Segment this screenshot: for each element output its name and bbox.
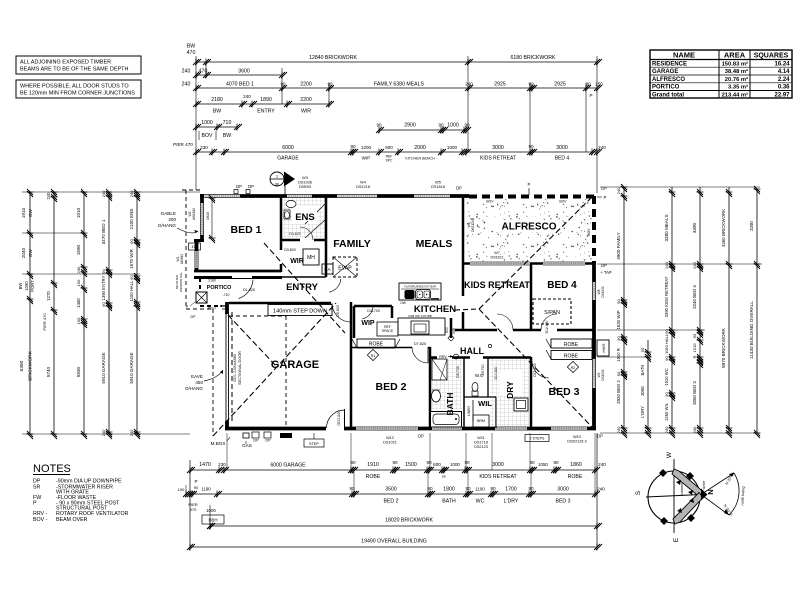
wall: wc/wil divider y=397 xyxy=(464,396,496,398)
portico pier xyxy=(186,292,207,309)
svg-text:1800: 1800 xyxy=(443,487,455,493)
svg-text:GAS: GAS xyxy=(242,443,252,448)
svg-text:1460 WIL: 1460 WIL xyxy=(664,402,669,421)
svg-text:WHERE POSSIBLE, ALL DOOR STUDS: WHERE POSSIBLE, ALL DOOR STUDS TO xyxy=(20,84,129,90)
S/PAN dashed box xyxy=(533,299,571,324)
svg-text:P: P xyxy=(589,93,592,98)
svg-text:1190: 1190 xyxy=(201,487,211,492)
svg-text:600: 600 xyxy=(433,462,441,467)
compass rose xyxy=(635,451,745,542)
svg-text:3390: 3390 xyxy=(692,222,697,233)
svg-text:FLAT/BRUSHED HOT BAR: FLAT/BRUSHED HOT BAR xyxy=(404,285,436,289)
svg-text:90: 90 xyxy=(426,460,432,465)
svg-text:90: 90 xyxy=(692,333,697,338)
WC room xyxy=(472,364,485,396)
wall: alfresco bottom / kids-bed4 top xyxy=(463,262,594,265)
svg-text:DP: DP xyxy=(191,315,197,319)
svg-text:16.24: 16.24 xyxy=(774,61,790,67)
svg-text:5740: 5740 xyxy=(46,366,51,377)
svg-text:2925: 2925 xyxy=(554,82,566,88)
svg-text:240: 240 xyxy=(76,266,81,273)
svg-text:3060 BED 3: 3060 BED 3 xyxy=(692,381,697,405)
kitchen bench island xyxy=(399,283,441,305)
svg-text:BATH: BATH xyxy=(640,365,645,376)
svg-text:R2: R2 xyxy=(571,366,576,370)
svg-text:LINEN: LINEN xyxy=(467,405,471,416)
svg-text:90: 90 xyxy=(490,486,496,491)
svg-text:DS2124B: DS2124B xyxy=(471,218,475,232)
room label ALFRESCO xyxy=(496,220,562,233)
left wall window labels xyxy=(175,208,196,319)
svg-text:1460: 1460 xyxy=(76,298,81,308)
svg-text:2.24: 2.24 xyxy=(778,77,790,83)
svg-text:S: S xyxy=(635,490,642,495)
bottom dimension row B xyxy=(178,479,606,530)
svg-text:90: 90 xyxy=(528,82,534,87)
ens tiled floor + fixtures xyxy=(283,198,325,238)
svg-text:3000: 3000 xyxy=(492,462,504,468)
svg-text:P: P xyxy=(528,182,531,187)
svg-text:W: W xyxy=(666,451,673,458)
svg-text:90: 90 xyxy=(194,485,199,490)
svg-text:KITCHEN: KITCHEN xyxy=(414,304,456,315)
wall: garage top / step down xyxy=(229,302,331,305)
window W2 AW1812 bed1 left xyxy=(201,203,204,235)
svg-text:ENTRY: ENTRY xyxy=(286,282,319,293)
svg-text:90: 90 xyxy=(464,460,470,465)
roof hip: entry diagonal xyxy=(264,243,345,333)
svg-text:1000: 1000 xyxy=(447,145,458,150)
svg-text:ALFRESCO: ALFRESCO xyxy=(652,77,685,83)
svg-text:BEAM OVER: BEAM OVER xyxy=(56,517,88,523)
svg-text:2180: 2180 xyxy=(208,279,216,283)
svg-text:D4L720.: D4L720. xyxy=(367,309,381,313)
svg-text:MH: MH xyxy=(307,255,315,261)
svg-text:90: 90 xyxy=(664,329,669,334)
svg-text:4070 BED 1: 4070 BED 1 xyxy=(226,82,254,88)
top block extension lines xyxy=(196,56,597,193)
right dimension columns xyxy=(597,184,762,438)
svg-text:240: 240 xyxy=(664,261,669,268)
roof ridge: kitchen xyxy=(455,309,479,310)
RRV symbol xyxy=(439,354,458,359)
svg-text:BED 3: BED 3 xyxy=(556,499,571,505)
svg-text:BRM: BRM xyxy=(477,419,485,423)
svg-text:DS1921: DS1921 xyxy=(601,369,605,381)
svg-text:230: 230 xyxy=(218,462,226,467)
svg-text:NAME: NAME xyxy=(673,51,695,60)
wall: ens / wir divider xyxy=(281,239,326,242)
svg-text:ROBE: ROBE xyxy=(564,354,579,360)
svg-text:0.36: 0.36 xyxy=(778,85,790,91)
wall: bed1 bottom xyxy=(194,270,281,273)
svg-text:1620 WIP: 1620 WIP xyxy=(616,310,621,329)
wall: bath/wc divider x=464 xyxy=(463,357,465,428)
svg-text:DP: DP xyxy=(418,434,424,439)
svg-text:DS1921: DS1921 xyxy=(601,286,605,298)
svg-text:90: 90 xyxy=(427,486,433,491)
svg-text:BOV: BOV xyxy=(587,228,591,236)
top dimension row 5: bov bw xyxy=(193,120,242,140)
ens door D4.820 xyxy=(289,227,314,242)
wall: right exterior xyxy=(592,262,596,430)
note box: door studs xyxy=(16,80,141,98)
svg-text:GARAGE: GARAGE xyxy=(271,359,319,371)
svg-text:1000: 1000 xyxy=(206,508,216,513)
svg-text:4900 FAMILY: 4900 FAMILY xyxy=(616,232,621,260)
REF SPACE box xyxy=(377,322,398,336)
svg-text:DSD2115-2: DSD2115-2 xyxy=(567,440,587,444)
svg-text:DP: DP xyxy=(248,184,254,189)
wall: alfresco top dashed xyxy=(469,195,596,199)
HWS box xyxy=(597,340,609,356)
svg-text:1000: 1000 xyxy=(450,462,460,467)
svg-text:R1: R1 xyxy=(371,354,376,358)
svg-text:190: 190 xyxy=(76,279,81,286)
svg-text:90: 90 xyxy=(438,123,444,128)
svg-text:240: 240 xyxy=(182,69,191,75)
right wall annotations xyxy=(597,263,612,439)
garage door travel dashed outline xyxy=(229,315,286,317)
svg-text:GARAGE: GARAGE xyxy=(652,69,678,75)
svg-text:213.44 m²: 213.44 m² xyxy=(722,91,748,98)
svg-text:1700: 1700 xyxy=(505,487,517,493)
svg-text:BOV+: BOV+ xyxy=(208,307,217,311)
roof hip: bed3 diagonal xyxy=(479,309,592,427)
bottom dimension row D: 19490 overall building xyxy=(187,539,602,551)
svg-text:D55/93: D55/93 xyxy=(299,185,311,189)
svg-text:KIDS RETREAT: KIDS RETREAT xyxy=(464,280,530,290)
svg-text:90: 90 xyxy=(101,302,106,307)
svg-text:WIR: WIR xyxy=(301,109,311,115)
svg-text:OW: OW xyxy=(400,301,406,305)
svg-text:L'DRY: L'DRY xyxy=(640,406,645,418)
EVAP dashed box xyxy=(333,257,357,277)
top wall window labels xyxy=(234,176,607,200)
svg-text:240: 240 xyxy=(616,187,621,194)
svg-text:18020 BRICKWORK: 18020 BRICKWORK xyxy=(385,518,433,524)
svg-text:1910: 1910 xyxy=(76,207,81,218)
svg-text:450: 450 xyxy=(195,380,203,385)
wall: front entry xyxy=(194,276,232,279)
wall: kitchen/hall bottom y=347 bed2 top xyxy=(351,347,430,349)
svg-text:GABLE: GABLE xyxy=(161,211,176,216)
svg-text:150.83 m²: 150.83 m² xyxy=(722,60,748,67)
top dimension row 4: bw entry wir xyxy=(193,94,334,115)
wall: top exterior bed1-meals xyxy=(200,194,469,198)
svg-text:90: 90 xyxy=(464,123,470,128)
wall: alfresco right dashed xyxy=(592,196,596,264)
svg-text:6390: 6390 xyxy=(19,360,25,371)
svg-text:3380 MEALS: 3380 MEALS xyxy=(664,214,669,241)
wall: bed3 left x=531 xyxy=(531,357,549,428)
RA box xyxy=(322,264,333,274)
svg-text:240: 240 xyxy=(129,429,134,436)
svg-text:S/PAN: S/PAN xyxy=(544,310,560,316)
svg-text:5910 GARAGE: 5910 GARAGE xyxy=(129,352,134,383)
svg-text:winter: winter xyxy=(702,480,706,490)
wall: ens-wir right xyxy=(325,196,328,277)
svg-text:2000: 2000 xyxy=(414,145,426,151)
top dimension row 7: garage wip kitchen bench kids retreat bed4 xyxy=(173,142,606,163)
svg-text:1910: 1910 xyxy=(367,462,379,468)
svg-text:MEALS: MEALS xyxy=(416,238,453,250)
R2 diamond xyxy=(567,361,578,372)
svg-text:12840 BRICKWORK: 12840 BRICKWORK xyxy=(309,55,357,61)
bath room tiled floor xyxy=(432,359,462,409)
svg-text:1890: 1890 xyxy=(260,97,272,103)
svg-text:240: 240 xyxy=(46,192,51,200)
svg-text:DS1218: DS1218 xyxy=(356,185,370,189)
svg-text:Grand total: Grand total xyxy=(652,92,684,98)
note box: adjoining timber beams xyxy=(16,56,141,74)
kids retreat door xyxy=(497,314,513,330)
wall: bed1 left exterior upper xyxy=(200,194,204,242)
svg-text:BATH: BATH xyxy=(442,499,456,505)
svg-text:3000: 3000 xyxy=(492,145,504,151)
svg-text:PORTICO: PORTICO xyxy=(207,285,232,291)
svg-text:1000: 1000 xyxy=(447,123,459,129)
svg-text:1050: 1050 xyxy=(538,462,548,467)
svg-text:ALFRESCO: ALFRESCO xyxy=(502,222,557,233)
svg-text:WC: WC xyxy=(476,499,485,505)
svg-text:19490 OVERALL BUILDING: 19490 OVERALL BUILDING xyxy=(361,539,427,545)
svg-text:DS1818: DS1818 xyxy=(431,185,445,189)
svg-text:1570 WIR: 1570 WIR xyxy=(129,249,134,269)
svg-text:BED 2: BED 2 xyxy=(376,381,407,393)
svg-text:D11.820: D11.820 xyxy=(533,363,537,376)
svg-text:ROBE: ROBE xyxy=(568,474,583,480)
svg-text:3240 BED 4: 3240 BED 4 xyxy=(692,285,697,309)
entry front door D1.820 xyxy=(232,279,253,299)
svg-text:BW: BW xyxy=(28,249,33,257)
svg-text:DP: DP xyxy=(601,263,607,268)
svg-text:240: 240 xyxy=(597,487,605,492)
svg-text:90: 90 xyxy=(528,144,534,149)
svg-text:240: 240 xyxy=(598,462,606,467)
svg-text:2925: 2925 xyxy=(494,82,506,88)
garage sectional door dashed xyxy=(231,312,233,423)
svg-text:1910: 1910 xyxy=(21,207,26,218)
svg-text:240: 240 xyxy=(664,426,669,433)
eave overhang note xyxy=(185,370,223,391)
svg-text:1390 ENTRY: 1390 ENTRY xyxy=(101,276,106,301)
svg-text:NIB: NIB xyxy=(452,327,456,333)
portico step walls xyxy=(220,306,227,309)
svg-text:DP: DP xyxy=(265,439,271,443)
svg-text:PIER 470: PIER 470 xyxy=(42,313,47,331)
svg-text:240: 240 xyxy=(616,426,621,433)
wall: kitchen right nib x=451 xyxy=(445,318,456,338)
window W7 in alfresco bottom wall xyxy=(470,262,530,265)
svg-text:22.97: 22.97 xyxy=(774,92,790,98)
svg-text:SECTIONAL DOOR: SECTIONAL DOOR xyxy=(238,351,242,385)
svg-text:DS1621: DS1621 xyxy=(491,256,504,260)
svg-text:FAMILY: FAMILY xyxy=(333,238,371,250)
svg-text:38.48 m²: 38.48 m² xyxy=(725,68,748,75)
svg-text:BE 120mm MIN FROM CORNER JUNCT: BE 120mm MIN FROM CORNER JUNCTIONS xyxy=(20,91,135,97)
svg-text:1510: 1510 xyxy=(692,343,697,353)
svg-text:D12.680: D12.680 xyxy=(545,320,549,333)
svg-text:DP: DP xyxy=(597,434,603,439)
svg-text:3.35 m²: 3.35 m² xyxy=(728,84,748,91)
svg-text:BW: BW xyxy=(213,109,221,115)
svg-text:DRY: DRY xyxy=(505,381,515,399)
step down label box xyxy=(268,305,332,316)
garage step door D5.820 xyxy=(332,303,351,322)
svg-text:M.BOX: M.BOX xyxy=(211,441,226,446)
roof hip: alfresco diagonal xyxy=(479,197,592,309)
svg-text:BED 2: BED 2 xyxy=(384,499,399,505)
wir door D3.820 xyxy=(279,248,296,264)
svg-text:3390 KIDS RETREAT: 3390 KIDS RETREAT xyxy=(664,276,669,317)
window W1 AW812 xyxy=(195,251,198,268)
svg-text:AREA: AREA xyxy=(724,51,746,60)
svg-text:90: 90 xyxy=(640,347,645,352)
svg-text:W11: W11 xyxy=(477,436,485,440)
svg-text:90: 90 xyxy=(129,275,134,280)
svg-text:W5: W5 xyxy=(435,181,441,185)
svg-text:SR: SR xyxy=(33,485,41,491)
svg-text:D10.820: D10.820 xyxy=(494,366,498,379)
svg-text:BATH: BATH xyxy=(445,393,455,416)
svg-text:3600: 3600 xyxy=(238,69,250,75)
svg-text:HALL: HALL xyxy=(460,346,484,356)
svg-text:STEP: STEP xyxy=(309,442,319,446)
linen + brm xyxy=(467,400,489,427)
470 box xyxy=(189,243,201,250)
svg-text:PORTICO: PORTICO xyxy=(652,85,680,91)
svg-text:D3.820: D3.820 xyxy=(284,248,296,252)
svg-text:190: 190 xyxy=(178,487,185,492)
svg-text:3000: 3000 xyxy=(557,487,569,493)
svg-text:D7.820: D7.820 xyxy=(414,342,426,346)
svg-text:90: 90 xyxy=(392,460,398,465)
svg-text:140mm STEP DOWN: 140mm STEP DOWN xyxy=(273,309,327,315)
roof hip: garage diagonal xyxy=(213,303,336,436)
svg-text:PIER 470: PIER 470 xyxy=(173,142,193,147)
left dimension columns xyxy=(18,189,200,439)
R1 diamond xyxy=(367,349,378,360)
svg-text:P: P xyxy=(604,195,607,200)
notes legend xyxy=(33,463,129,523)
svg-text:KITCHEN BENCH: KITCHEN BENCH xyxy=(405,157,435,161)
svg-text:90: 90 xyxy=(350,144,356,149)
wall: garage left exterior xyxy=(226,302,286,430)
wall: bed1 left exterior lower xyxy=(195,239,199,272)
svg-text:2200: 2200 xyxy=(300,82,312,88)
wall: bottom exterior xyxy=(225,427,596,431)
wall: bed1 / ens-wir divider xyxy=(280,196,283,272)
svg-text:90: 90 xyxy=(443,468,447,472)
svg-text:90: 90 xyxy=(350,460,356,465)
svg-text:600: 600 xyxy=(445,327,449,333)
eave dashed overhang line xyxy=(182,190,213,436)
bed3 robes xyxy=(546,339,592,360)
svg-text:3060: 3060 xyxy=(640,386,645,396)
svg-text:GD1 2100x4880: GD1 2100x4880 xyxy=(233,354,237,382)
svg-text:200: 200 xyxy=(168,217,176,222)
svg-text:90: 90 xyxy=(376,123,382,128)
svg-text:KIDS RETREAT: KIDS RETREAT xyxy=(479,474,517,480)
svg-text:470: 470 xyxy=(190,507,197,512)
svg-text:BOV: BOV xyxy=(486,200,494,204)
top dimension row 1: 12840 / 6180 brickwork xyxy=(187,44,602,66)
svg-text:90: 90 xyxy=(664,392,669,397)
svg-text:W7: W7 xyxy=(494,251,499,255)
svg-text:1860: 1860 xyxy=(570,462,582,468)
svg-text:90: 90 xyxy=(616,371,621,376)
section marker circle 06 xyxy=(270,172,295,197)
svg-text:06: 06 xyxy=(275,182,280,187)
svg-text:2040: 2040 xyxy=(21,247,26,258)
wall: kids retreat / bed4 divider xyxy=(530,264,533,330)
svg-text:DP: DP xyxy=(236,184,242,189)
wall: meals/alfresco divider x=463 xyxy=(462,196,465,330)
svg-text:R: R xyxy=(692,355,697,358)
svg-text:6180 BRICKWORK: 6180 BRICKWORK xyxy=(511,55,557,61)
svg-text:3360 BRICKWORK: 3360 BRICKWORK xyxy=(721,209,726,247)
svg-text:470: 470 xyxy=(187,50,196,56)
svg-text:2 STEPS: 2 STEPS xyxy=(530,437,545,441)
svg-text:4.14: 4.14 xyxy=(778,69,790,75)
svg-text:3390: 3390 xyxy=(749,221,754,231)
svg-text:P: P xyxy=(33,501,37,507)
svg-text:ENTRY: ENTRY xyxy=(257,109,275,115)
svg-text:BOV -: BOV - xyxy=(33,517,48,523)
svg-text:240: 240 xyxy=(129,190,134,197)
svg-text:900: 900 xyxy=(385,145,393,150)
svg-text:90: 90 xyxy=(616,299,621,304)
svg-text:W4: W4 xyxy=(360,181,366,185)
svg-text:WIP: WIP xyxy=(362,156,371,161)
alfresco stipple floor xyxy=(466,199,592,262)
svg-text:150: 150 xyxy=(595,82,603,87)
svg-text:6000: 6000 xyxy=(282,145,294,151)
top dimension row 2 xyxy=(182,69,287,79)
svg-text:RA: RA xyxy=(324,267,331,272)
svg-text:ROBE: ROBE xyxy=(366,474,381,480)
svg-text:2900: 2900 xyxy=(404,123,416,129)
svg-text:SPACE: SPACE xyxy=(382,329,394,333)
roof hip: portico diagonal xyxy=(228,315,277,367)
svg-text:DP: DP xyxy=(601,186,607,191)
window W2-W5 in top wall xyxy=(204,195,240,198)
svg-text:BW: BW xyxy=(187,44,195,50)
svg-text:E: E xyxy=(673,537,680,542)
svg-text:BOV: BOV xyxy=(202,133,213,139)
wall: garage right / bed2 left xyxy=(350,302,353,428)
svg-text:1050 HALL: 1050 HALL xyxy=(664,333,669,354)
wall: hall bottom y=357 xyxy=(430,356,531,359)
svg-text:240: 240 xyxy=(598,145,606,150)
svg-text:ALL ADJOINING EXPOSED TIMBER: ALL ADJOINING EXPOSED TIMBER xyxy=(20,60,111,66)
svg-text:5910 GARAGE: 5910 GARAGE xyxy=(101,352,106,383)
dry trough xyxy=(514,398,528,411)
svg-text:240: 240 xyxy=(101,190,106,197)
svg-text:1270: 1270 xyxy=(46,291,51,301)
svg-text:1090: 1090 xyxy=(24,281,29,291)
svg-text:3000: 3000 xyxy=(556,145,568,151)
WIP pantry walls xyxy=(354,306,392,338)
svg-text:DS1718: DS1718 xyxy=(474,441,488,445)
svg-text:summer: summer xyxy=(680,482,684,495)
svg-text:BED 1: BED 1 xyxy=(231,224,262,236)
svg-text:11430 BUILDING OVERALL: 11430 BUILDING OVERALL xyxy=(749,301,754,359)
svg-text:240: 240 xyxy=(243,94,251,99)
svg-text:D9.720: D9.720 xyxy=(481,364,485,375)
bottom exterior annotations xyxy=(211,432,587,449)
